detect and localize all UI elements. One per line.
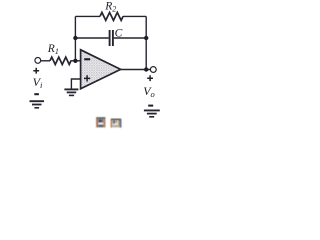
resistor R2 bbox=[100, 12, 123, 20]
node junction dot output feedback tap bbox=[144, 67, 148, 71]
label plus (output) bbox=[147, 75, 153, 81]
node junction dot right capacitor tap bbox=[144, 36, 148, 40]
wire input to R1 bbox=[41, 60, 50, 62]
op-amp minus sign (inverting pin) bbox=[84, 58, 90, 60]
wire op-amp output bbox=[121, 69, 151, 71]
wire top branch left segment bbox=[75, 15, 100, 17]
op-amp plus sign (non-inverting pin) bbox=[84, 75, 90, 81]
node junction dot left capacitor tap bbox=[73, 36, 77, 40]
label plus (input source) bbox=[33, 68, 39, 74]
label minus (input source) bbox=[34, 93, 39, 95]
wire feedback right vertical bbox=[145, 16, 147, 69]
node junction dot inverting input bbox=[73, 59, 77, 63]
wire capacitor branch right segment bbox=[114, 37, 146, 39]
icon placeholder 2 bbox=[111, 119, 122, 128]
wire top branch right segment bbox=[123, 15, 146, 17]
capacitor C bbox=[110, 30, 113, 46]
wire feedback left vertical (node A to top branch) bbox=[74, 16, 76, 60]
wire non-inverting input to ground bbox=[71, 79, 80, 89]
label minus (output) bbox=[148, 105, 153, 107]
ground at output bbox=[144, 110, 160, 116]
wire R1 to op-amp inverting input bbox=[71, 60, 81, 62]
op-amp U1 bbox=[81, 50, 121, 89]
icon placeholder 1 bbox=[96, 117, 105, 127]
wire capacitor branch left segment bbox=[75, 37, 108, 39]
resistor R1 bbox=[50, 57, 71, 64]
input terminal circle bbox=[35, 58, 41, 64]
ground at op-amp non-inverting input bbox=[64, 89, 78, 95]
ground at input source bbox=[30, 101, 45, 108]
output terminal circle bbox=[150, 67, 156, 73]
